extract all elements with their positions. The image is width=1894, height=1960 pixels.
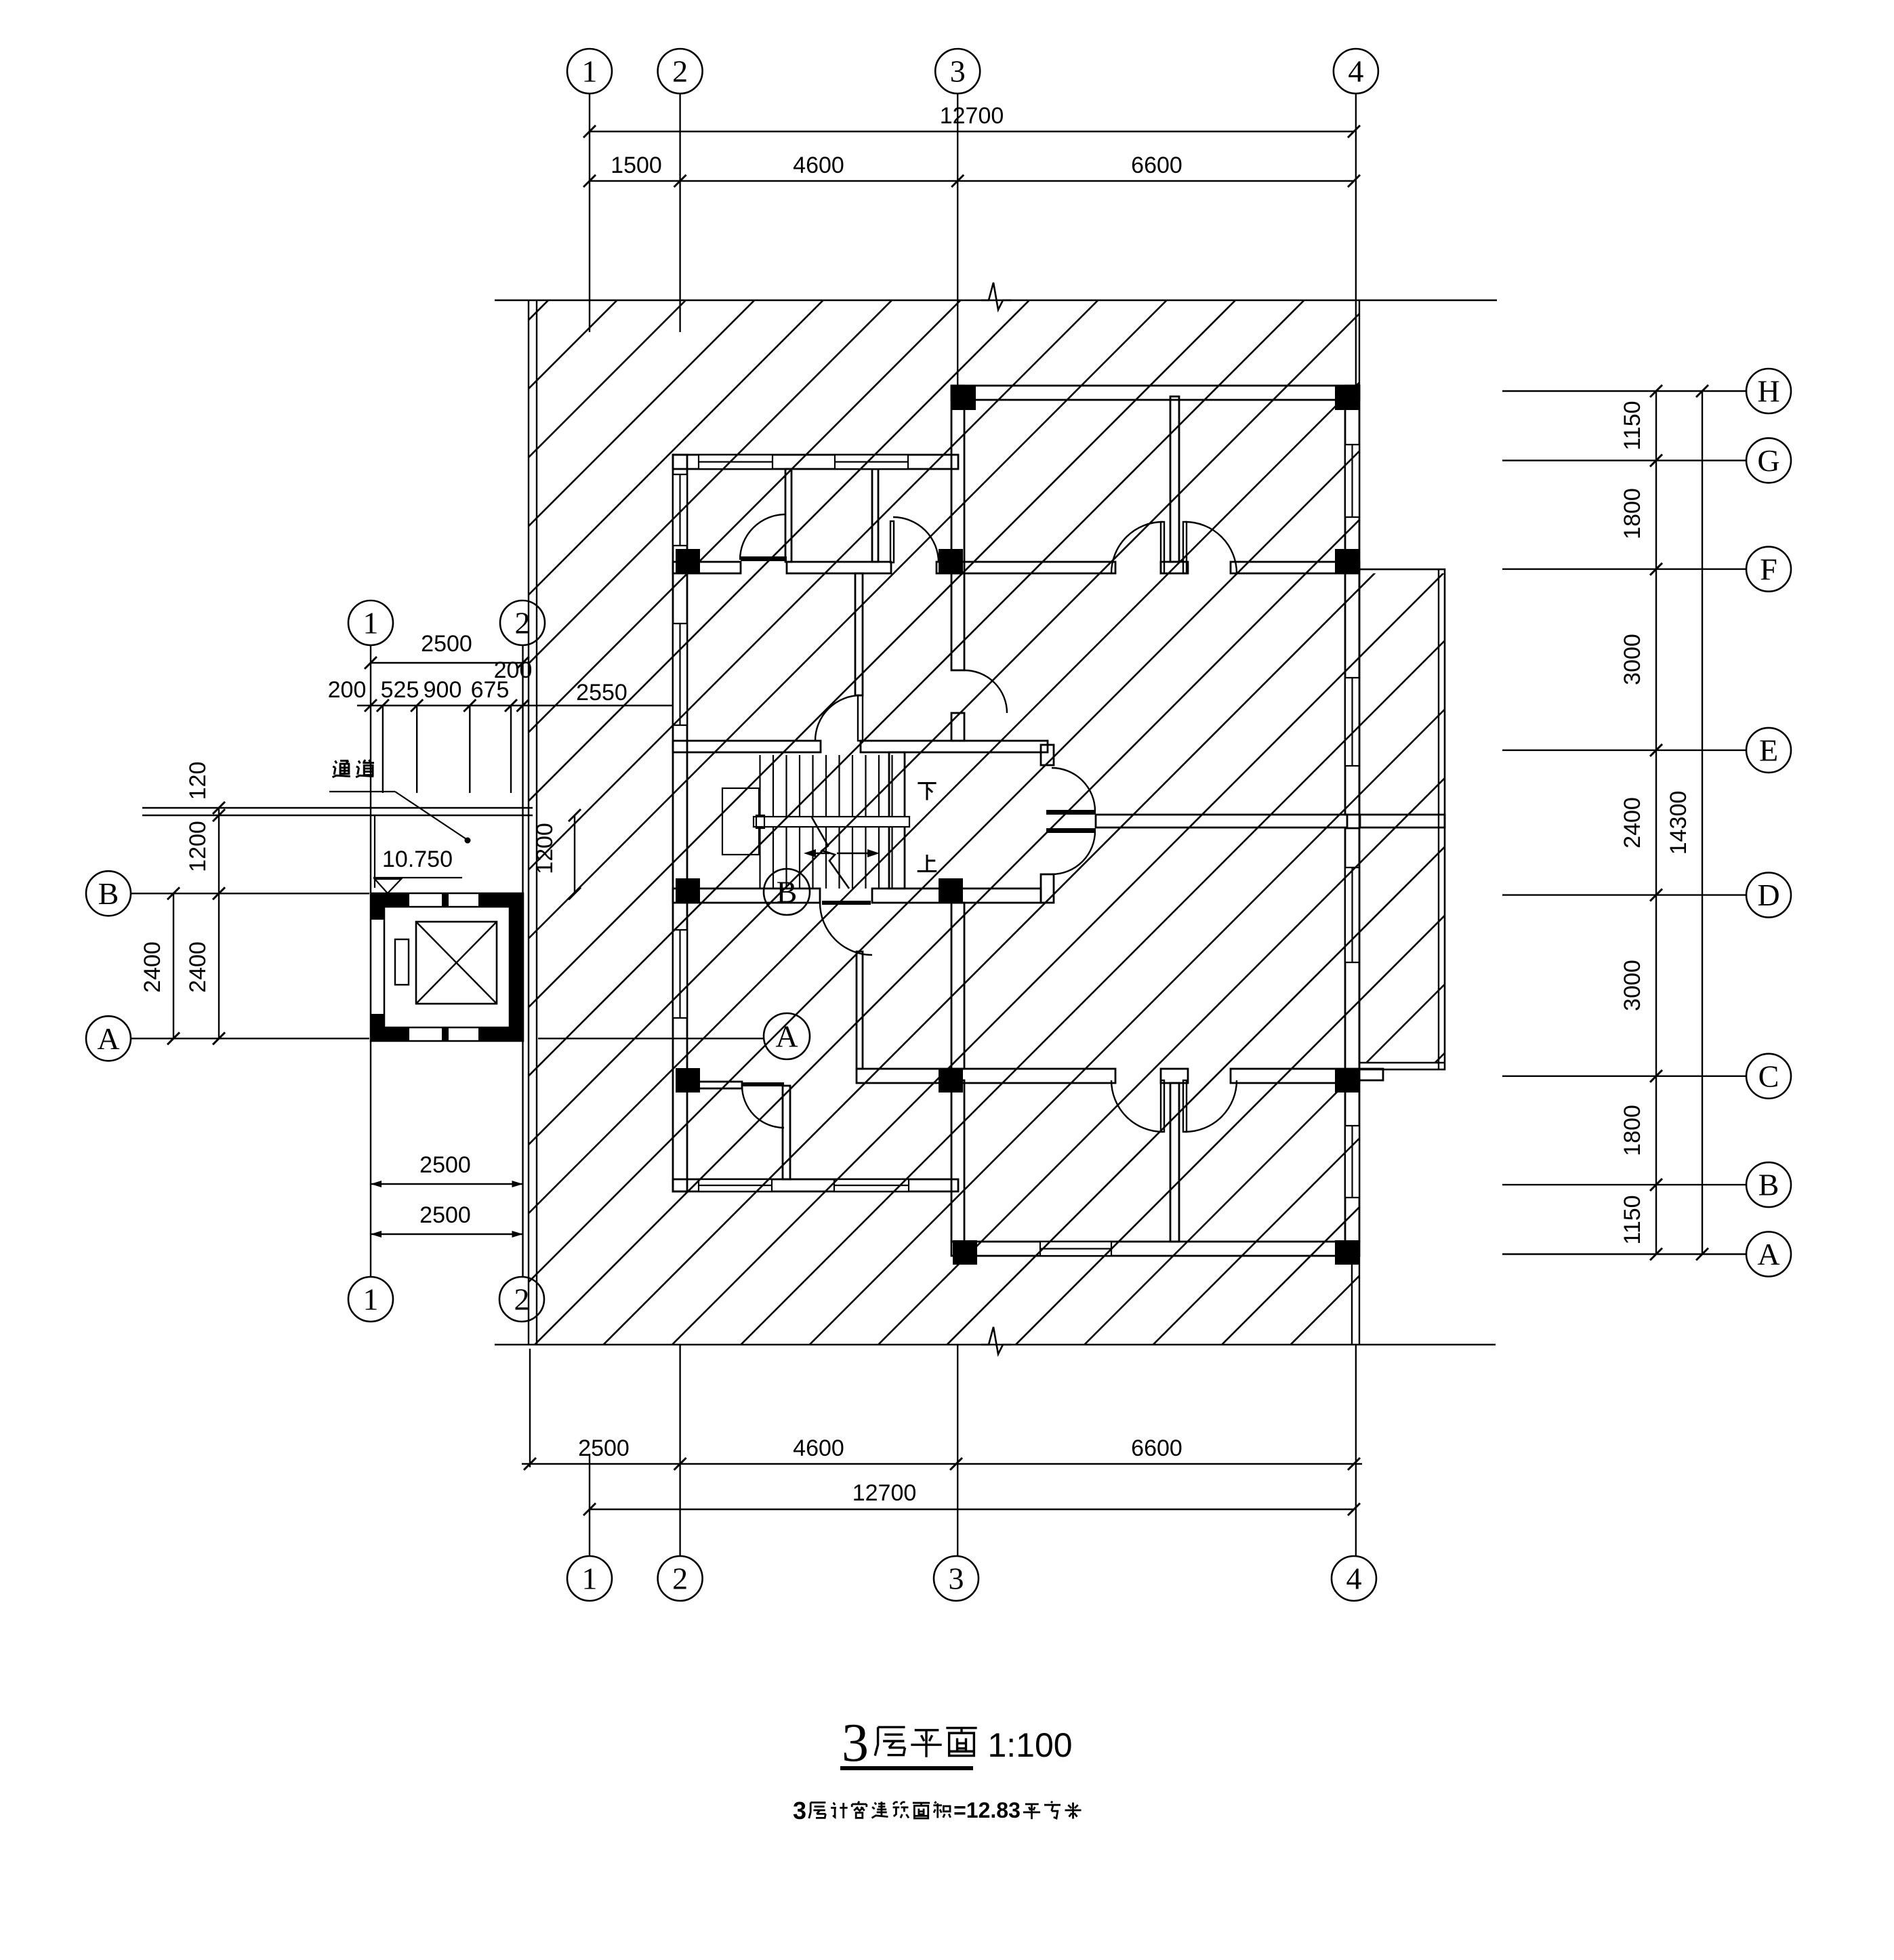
svg-text:1150: 1150 xyxy=(1620,1195,1645,1244)
svg-text:C: C xyxy=(1758,1059,1779,1093)
svg-text:2: 2 xyxy=(515,606,531,640)
svg-text:1800: 1800 xyxy=(1620,1105,1645,1156)
svg-text:H: H xyxy=(1757,374,1779,409)
svg-text:B: B xyxy=(777,875,798,910)
svg-text:675: 675 xyxy=(471,677,510,703)
svg-text:B: B xyxy=(1758,1168,1779,1202)
svg-text:D: D xyxy=(1757,878,1779,912)
svg-text:4: 4 xyxy=(1348,54,1363,89)
svg-text:14300: 14300 xyxy=(1666,791,1691,855)
svg-text:3: 3 xyxy=(793,1797,806,1824)
svg-text:3: 3 xyxy=(842,1713,869,1773)
svg-text:2: 2 xyxy=(672,1561,688,1596)
svg-text:2500: 2500 xyxy=(421,631,472,657)
svg-text:4: 4 xyxy=(1346,1561,1362,1596)
svg-text:E: E xyxy=(1759,733,1778,768)
svg-text:2400: 2400 xyxy=(1620,797,1645,849)
svg-text:12700: 12700 xyxy=(940,103,1004,129)
svg-text:12700: 12700 xyxy=(852,1480,917,1506)
svg-text:2: 2 xyxy=(514,1282,530,1317)
svg-text:1: 1 xyxy=(582,54,598,89)
svg-text:=12.83: =12.83 xyxy=(953,1798,1021,1822)
svg-text:6600: 6600 xyxy=(1131,152,1182,178)
svg-text:120: 120 xyxy=(185,762,211,800)
svg-text:F: F xyxy=(1760,552,1777,586)
svg-text:6600: 6600 xyxy=(1131,1435,1182,1461)
svg-text:1500: 1500 xyxy=(611,152,662,178)
svg-text:525: 525 xyxy=(381,677,419,703)
svg-text:G: G xyxy=(1757,443,1779,478)
svg-text:A: A xyxy=(97,1021,119,1056)
svg-text:B: B xyxy=(98,876,119,911)
svg-text:2500: 2500 xyxy=(419,1152,471,1178)
svg-text:2400: 2400 xyxy=(140,941,165,993)
svg-text:1: 1 xyxy=(363,606,379,640)
svg-text:3: 3 xyxy=(950,54,966,89)
svg-text:4600: 4600 xyxy=(793,1435,844,1461)
svg-text:2400: 2400 xyxy=(185,941,211,993)
svg-text:1200: 1200 xyxy=(532,823,558,874)
svg-text:2: 2 xyxy=(672,54,688,89)
svg-text:200: 200 xyxy=(328,677,367,703)
svg-text:A: A xyxy=(775,1019,798,1054)
svg-text:2550: 2550 xyxy=(576,680,627,706)
svg-text:2500: 2500 xyxy=(578,1435,630,1461)
svg-text:1:100: 1:100 xyxy=(987,1726,1072,1764)
svg-text:A: A xyxy=(1757,1237,1779,1271)
svg-text:1200: 1200 xyxy=(185,821,211,872)
svg-text:10.750: 10.750 xyxy=(382,846,453,872)
svg-text:3000: 3000 xyxy=(1620,960,1645,1011)
svg-text:1150: 1150 xyxy=(1620,401,1645,450)
svg-text:1: 1 xyxy=(582,1561,598,1596)
svg-text:900: 900 xyxy=(424,677,462,703)
svg-text:2500: 2500 xyxy=(419,1202,471,1228)
svg-text:4600: 4600 xyxy=(793,152,844,178)
svg-text:1800: 1800 xyxy=(1620,488,1645,539)
svg-text:1: 1 xyxy=(363,1282,379,1317)
svg-text:3: 3 xyxy=(949,1561,964,1596)
svg-text:3000: 3000 xyxy=(1620,634,1645,685)
